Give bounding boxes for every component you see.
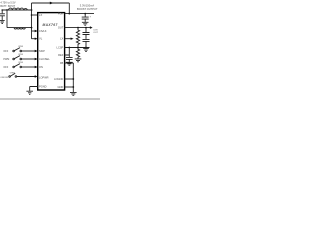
svg-text:PWM: PWM bbox=[3, 58, 9, 61]
svg-text:REF: REF bbox=[58, 53, 64, 57]
pin arrow SKIP bbox=[35, 50, 38, 52]
resistor R2 (divider bottom) bbox=[76, 48, 79, 59]
node V+ tap bbox=[31, 9, 33, 11]
pin arrow V+ bbox=[35, 30, 38, 32]
pin labels right column bbox=[54, 12, 64, 89]
value label C3 bbox=[93, 29, 98, 34]
node input-cap junction bbox=[6, 9, 8, 11]
switch S3 (ON) bbox=[3, 62, 23, 69]
pin arrow SS bbox=[35, 75, 38, 77]
node output cap junction bbox=[84, 13, 86, 15]
wire REF pin bbox=[65, 48, 70, 57]
wire FB pin to ground rail bbox=[65, 63, 74, 92]
svg-text:CS/LK: CS/LK bbox=[39, 29, 47, 33]
wire left supply rail bbox=[31, 3, 33, 39]
svg-text:PGND: PGND bbox=[39, 84, 47, 88]
svg-text:SKIP: SKIP bbox=[39, 49, 45, 53]
pin arrow SYNC bbox=[35, 58, 38, 60]
wire switch S2 to pin bbox=[22, 58, 36, 60]
capacitor C2 polarity + bbox=[90, 16, 92, 19]
svg-text:LOPWR: LOPWR bbox=[39, 75, 49, 79]
wire switch S1 to pin bbox=[22, 50, 36, 52]
svg-text:OUT: OUT bbox=[93, 32, 98, 34]
switch S2 (SYNC) bbox=[3, 54, 23, 61]
switch S4 (ON/OFF) bbox=[0, 72, 15, 79]
pin arrow LX out bbox=[71, 38, 74, 40]
svg-text:MAX767: MAX767 bbox=[43, 23, 58, 27]
svg-text:OFF: OFF bbox=[3, 50, 8, 53]
svg-text:LCSP: LCSP bbox=[57, 46, 64, 50]
capacitor C3 (filter, doubled) bbox=[83, 28, 90, 48]
output label "BOOST OUTPUT" bbox=[77, 3, 98, 10]
wire switch S3 to pin bbox=[22, 66, 36, 68]
svg-text:OFF: OFF bbox=[3, 66, 8, 69]
resistor R1 (divider top) bbox=[76, 28, 79, 48]
wire CC pin bbox=[65, 78, 74, 80]
wire top rail to right side bbox=[32, 3, 70, 14]
node input rail start bbox=[1, 9, 3, 11]
svg-text:3.3V/150mA: 3.3V/150mA bbox=[80, 3, 95, 7]
input label "4.75V to 5.5V INPUT" bbox=[0, 1, 15, 7]
node CS junction bbox=[77, 47, 79, 49]
switch S1 (SKIP) bbox=[3, 46, 23, 53]
svg-text:ON/OFF: ON/OFF bbox=[0, 77, 9, 79]
bottom rule bbox=[0, 98, 100, 100]
wire PGND to ground bbox=[30, 87, 38, 91]
svg-text:OUT: OUT bbox=[58, 26, 64, 30]
pin arrow VL bbox=[35, 38, 38, 40]
svg-text:BOOST OUTPUT: BOOST OUTPUT bbox=[77, 7, 98, 11]
node GND junction bbox=[72, 86, 74, 88]
ground (boost cap) bbox=[82, 22, 89, 25]
node R1 top bbox=[77, 27, 79, 29]
pin labels left column bbox=[39, 13, 50, 89]
capacitor C1 (input bypass) bbox=[0, 10, 5, 20]
capacitor C2 (boost output) bbox=[82, 14, 89, 22]
ground (PGND) bbox=[26, 91, 33, 94]
svg-text:POK: POK bbox=[58, 12, 64, 16]
wire POK/VDD rail right bbox=[65, 13, 94, 15]
node REF tap bbox=[68, 47, 70, 49]
wire GND pin bbox=[65, 86, 74, 88]
wire LX pin right with arrow bbox=[65, 38, 72, 40]
wire OUT rail right bbox=[65, 27, 91, 29]
ground (IC GND) bbox=[70, 92, 77, 95]
ground (C4) bbox=[66, 62, 73, 65]
inductor L1 bbox=[9, 8, 28, 10]
inductor L2 (second winding) bbox=[7, 10, 32, 29]
wire input rail bbox=[2, 9, 31, 11]
node current arrow on top rail bbox=[50, 2, 54, 5]
svg-text:BATT. INPUT: BATT. INPUT bbox=[0, 5, 15, 8]
svg-text:LX: LX bbox=[60, 37, 63, 41]
wire pin LX left bbox=[32, 14, 38, 16]
wire switch S4 to pin bbox=[17, 76, 36, 78]
node C3 top bbox=[85, 27, 87, 29]
wire pin V+ bbox=[32, 30, 36, 32]
pin arrow ON bbox=[35, 66, 38, 68]
node boost rail junction bbox=[68, 13, 70, 15]
svg-text:GND: GND bbox=[58, 85, 64, 89]
node C3 bottom junction bbox=[85, 47, 87, 49]
wire CS rail bbox=[65, 47, 90, 49]
svg-text:LOGND: LOGND bbox=[54, 77, 63, 81]
wire pin VL bbox=[32, 38, 36, 40]
node LX tap bbox=[31, 14, 33, 16]
ground (C3) bbox=[83, 49, 89, 52]
node CC junction bbox=[72, 78, 74, 80]
svg-text:LX: LX bbox=[39, 13, 42, 17]
ground (input cap) bbox=[0, 20, 5, 23]
op-amp U1 MAX767 regulator IC body bbox=[38, 13, 65, 90]
svg-text:3.3V: 3.3V bbox=[93, 29, 98, 31]
node winding junction bbox=[31, 27, 33, 29]
svg-text:CLK/SEL: CLK/SEL bbox=[39, 57, 50, 61]
svg-text:VL: VL bbox=[39, 37, 43, 41]
pin arrow OUT terminal bbox=[90, 26, 93, 29]
svg-text:FB: FB bbox=[60, 61, 64, 65]
ground (R2) bbox=[75, 59, 82, 62]
svg-text:ON: ON bbox=[39, 65, 43, 69]
svg-text:+: + bbox=[90, 16, 92, 19]
capacitor C4 (REF bypass) bbox=[66, 57, 73, 62]
